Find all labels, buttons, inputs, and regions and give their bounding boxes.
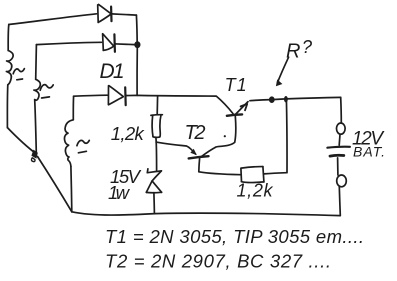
svg-text:T2 = 2N 2907, BC 327 ....: T2 = 2N 2907, BC 327 .... [105, 251, 331, 272]
label 12V [352, 129, 385, 150]
label 1w for ZD1 [108, 182, 131, 203]
wire vertical from D2 cathode down to node B [135, 15, 138, 44]
wire T1 collector down to T2 [201, 116, 235, 157]
wire top-left horizontal to diode D2 anode [9, 14, 97, 25]
battery BT1 bottom lead to bottom rail [339, 187, 340, 216]
node E tick on top rail [284, 96, 288, 102]
transistor T1 emitter line [235, 102, 248, 115]
wire left vertical (winding L1 lead, upper) [7, 25, 10, 51]
svg-text:1,2k: 1,2k [111, 123, 146, 144]
wire left vertical (winding L1 lead, lower) [6, 85, 8, 128]
label D1 [100, 60, 125, 83]
label T2 [185, 122, 206, 144]
label 1,2k for R1 [111, 123, 146, 144]
diode D1 [108, 86, 137, 106]
resistor R1 bottom lead to node C [155, 137, 157, 142]
junction node A (arrow blob where left leads join) [31, 150, 37, 162]
note line 2: T2 types [105, 251, 331, 272]
AC tilde symbol for L1 [13, 69, 24, 80]
wire main rail from D1 to T1 base bar [137, 95, 233, 113]
battery BT1 long plate [327, 146, 350, 149]
note line 1: T1 types [105, 226, 364, 247]
label 15V for ZD1 [110, 166, 142, 187]
wire second horizontal to diode D3 anode [36, 42, 101, 44]
diode D2 (top) [98, 4, 137, 22]
wire T2 base lead down and right to R2 [199, 158, 241, 174]
label BAT. [353, 144, 385, 160]
label R? [286, 37, 312, 63]
svg-text:T1 = 2N 3055, TIP 3055 em....: T1 = 2N 3055, TIP 3055 em.... [105, 226, 364, 247]
AC tilde symbol for L2 [40, 85, 53, 98]
resistor R1 top lead [156, 96, 158, 114]
wire second vertical (winding L2 lead, lower) [35, 100, 37, 153]
inductor L2 (transformer winding) [34, 79, 40, 100]
arrowhead of R? arrow [276, 79, 283, 86]
wire slant from junction A down to bottom-left corner [38, 157, 72, 212]
svg-text:1,2k: 1,2k [237, 181, 274, 201]
wire vertical from node E down to R2 [285, 99, 288, 173]
svg-text:T1: T1 [225, 75, 247, 95]
node B junction dot (D2/D3 outputs) [134, 41, 140, 48]
wire second vertical (winding L2 lead, upper) [35, 45, 38, 80]
resistor R2 right lead to V5 [264, 173, 287, 174]
resistor R2 (1,2k horizontal box) [241, 167, 264, 183]
wire bottom rail [72, 212, 341, 216]
T1 emitter arrowhead [241, 104, 248, 110]
svg-text:1w: 1w [108, 182, 131, 203]
svg-text:BAT.: BAT. [353, 144, 385, 160]
wire third vertical (winding L3 lead, upper) [72, 96, 74, 120]
diode D3 (second) [103, 34, 135, 52]
ink speck near T2 [224, 135, 226, 137]
battery BT1 terminal circle bottom [337, 175, 347, 187]
resistor R1 (1,2k vertical box) [151, 115, 163, 138]
wire battery top corner vertical [340, 97, 343, 123]
battery BT1 lead lower [337, 158, 339, 175]
svg-text:?: ? [302, 37, 312, 57]
zener diode ZD1 (15V 1W) [146, 169, 161, 193]
transistor T2 base bar [189, 156, 209, 158]
arrow from R? to node D [278, 57, 289, 82]
wire third vertical top corner to D1 anode [74, 95, 108, 96]
wire third vertical (winding L3 lead, lower) [70, 166, 73, 211]
zener diode ZD1 top lead from node C [155, 142, 157, 170]
T2 emitter arrowhead [190, 149, 197, 156]
battery BT1 lead [338, 134, 341, 145]
label T1 [225, 75, 247, 95]
label 1,2k for R2 [237, 181, 274, 201]
battery BT1 terminal circle top [337, 123, 346, 134]
wire slant from L1 bottom to junction A [7, 128, 36, 154]
AC tilde symbol for L3 [77, 140, 89, 152]
transistor T1 base bar [227, 114, 242, 115]
wire T2 emitter from node C [156, 142, 195, 154]
node D dot on top rail [269, 96, 275, 103]
wire top rail T1 emitter to battery corner [250, 97, 341, 100]
inductor L3 (transformer secondary winding) [64, 120, 73, 167]
wire vertical from node B down to main rail [136, 48, 138, 95]
svg-text:D1: D1 [100, 60, 125, 83]
zener ZD1 bottom lead to bottom rail [153, 193, 156, 214]
svg-text:T2: T2 [185, 122, 206, 144]
inductor L1 (transformer primary winding) [6, 51, 13, 85]
battery BT1 short plate [330, 154, 344, 158]
